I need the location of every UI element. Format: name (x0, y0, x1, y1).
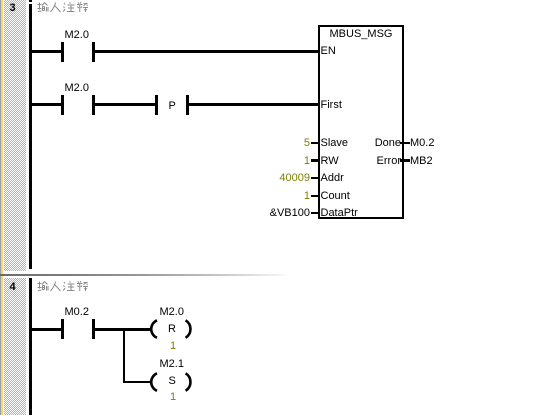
network separator line (0, 274, 290, 276)
contact M2.0 left leg (61, 42, 64, 62)
coil R (M2.0 reset) label (160, 307, 184, 318)
pin Error stub (400, 159, 410, 162)
network 3 comment 输入注释 (drawn glyphs) (37, 2, 88, 14)
wire P contact to box First (189, 103, 319, 106)
wire rail to contact (29, 50, 61, 53)
left margin yellow strip (1, 0, 3, 415)
RW value 1 (260, 156, 310, 167)
coil S count 1 (170, 392, 176, 403)
contact M0.2 left leg (61, 319, 64, 339)
coil S parentheses (146, 369, 196, 395)
pin Count (321, 191, 350, 202)
network 4 number label (10, 282, 16, 293)
pin Addr (321, 173, 344, 184)
coil S (M2.1 set) label (160, 359, 184, 370)
Addr value 40009 (260, 173, 310, 184)
contact M2.0 left leg (61, 95, 64, 115)
pin Done (351, 138, 401, 149)
wire branch to S coil (123, 381, 150, 384)
pin Slave stub (311, 142, 318, 145)
wire contact to R coil (95, 328, 150, 331)
wire contact to box EN (95, 50, 319, 53)
network 4 comment 输入注释 (drawn glyphs) (37, 281, 88, 293)
pin Slave (321, 138, 349, 149)
P contact right leg (186, 95, 189, 115)
pin Addr stub (311, 177, 318, 180)
pin Error (351, 156, 401, 167)
box title MBUS_MSG (318, 29, 404, 40)
wire to P contact (95, 103, 156, 106)
contact M0.2 label (65, 307, 89, 318)
P contact letter (169, 101, 176, 112)
pin DataPtr stub (311, 212, 318, 215)
coil R count 1 (170, 341, 176, 352)
coil S letter (169, 376, 176, 387)
contact M2.0 label (65, 83, 89, 94)
wire rail to contact (29, 328, 61, 331)
contact M2.0 right leg (92, 42, 95, 62)
coil R parentheses (146, 316, 196, 342)
pin RW (321, 156, 339, 167)
pin First (321, 100, 342, 111)
P contact left leg (155, 95, 158, 115)
pin EN (321, 46, 336, 57)
network 3 left power rail (29, 0, 32, 2)
DataPtr value &VB100 (260, 208, 310, 219)
wire rail to contact (29, 103, 61, 106)
network 3 number label (10, 3, 16, 14)
Done value M0.2 (410, 138, 434, 149)
left margin gray edge (0, 0, 1, 415)
pin RW stub (311, 159, 318, 162)
network 4 left power rail (29, 278, 32, 415)
sidebar white band at network separator (4, 271, 26, 278)
contact M2.0 right leg (92, 95, 95, 115)
contact M0.2 right leg (92, 319, 95, 339)
Count value 1 (260, 191, 310, 202)
Slave value 5 (260, 138, 310, 149)
box outline (318, 25, 405, 219)
pin Count stub (311, 195, 318, 198)
coil R letter (168, 324, 176, 335)
pin DataPtr (321, 208, 358, 219)
network number sidebar (dithered) (4, 0, 26, 415)
contact M2.0 label (65, 30, 89, 41)
branch vertical wire (123, 328, 126, 383)
pin Done stub (400, 142, 410, 145)
Error value MB2 (410, 156, 433, 167)
